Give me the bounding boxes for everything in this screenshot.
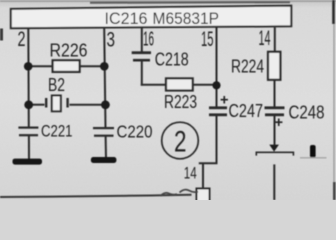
ground (pin2 / C221) [13, 159, 43, 165]
resistor R223 [141, 78, 217, 90]
svg-text:R226: R226 [50, 41, 88, 61]
pin 2 wire [27, 28, 30, 128]
svg-text:B2: B2 [48, 75, 65, 95]
wire to lower IC pin 14 [202, 163, 204, 188]
svg-text:IC216: IC216 [105, 9, 148, 28]
svg-text:16: 16 [143, 29, 154, 51]
right frame line [333, 0, 336, 200]
handwriting squiggle [161, 190, 199, 196]
capacitor C218 [132, 51, 151, 85]
IC U1 body (IC216 M65831P) [11, 6, 292, 29]
svg-text:14: 14 [184, 164, 197, 183]
node marker circle 2 [162, 122, 199, 159]
top frame line [0, 1, 336, 3]
svg-text:C221: C221 [41, 122, 73, 141]
ceramic resonator B2 [29, 96, 106, 112]
junction dot pin15/R223/C247 [212, 81, 220, 89]
svg-text:15: 15 [201, 28, 214, 51]
pin 3 wire [104, 28, 105, 129]
svg-text:+: + [275, 115, 284, 131]
ground (pin3 / C220) [91, 157, 117, 163]
svg-text:3: 3 [107, 28, 116, 51]
svg-text:2: 2 [18, 28, 26, 51]
pin 15 wire [216, 28, 218, 107]
svg-text:C248: C248 [289, 102, 325, 122]
junction dot pin2/B2 [24, 100, 33, 109]
wire to circled node 2 [199, 162, 218, 164]
arrow to chassis [269, 145, 279, 152]
bottom scan line [0, 195, 192, 197]
svg-text:14: 14 [259, 27, 271, 50]
resistor R224 [268, 52, 280, 107]
svg-text:+: + [220, 93, 229, 109]
junction dot pin3/R226 [100, 62, 109, 71]
resistor R226 [29, 60, 105, 72]
pin 14 wire [274, 28, 276, 53]
left frame mark [0, 29, 3, 41]
pin 16 wire [141, 28, 143, 52]
svg-text:2: 2 [174, 125, 187, 158]
capacitor C247 (polarized) [209, 93, 229, 164]
svg-text:C220: C220 [117, 121, 153, 141]
connector blob (cut component right) [300, 145, 327, 158]
wire below chassis [273, 164, 275, 200]
junction dot pin2/R226 [24, 62, 33, 71]
svg-text:C247: C247 [229, 101, 264, 121]
svg-text:M65831P: M65831P [153, 9, 220, 28]
capacitor C221 [18, 127, 38, 137]
chassis bar [256, 152, 293, 155]
svg-text:C218: C218 [155, 49, 189, 70]
junction dot pin3/B2 [101, 100, 110, 109]
lower IC body (cut off) [197, 189, 210, 203]
capacitor C220 [93, 127, 114, 137]
svg-text:R224: R224 [231, 56, 264, 76]
capacitor C248 (polarized) [265, 106, 285, 144]
svg-text:R223: R223 [164, 91, 197, 112]
